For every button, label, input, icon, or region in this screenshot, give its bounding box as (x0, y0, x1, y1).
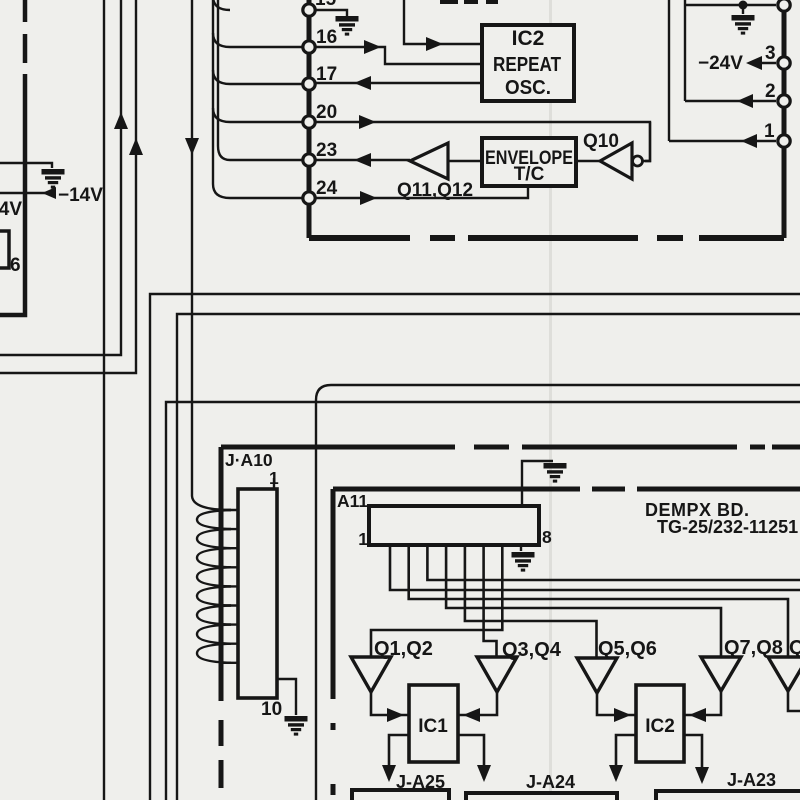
pin 17 wire from IC2 (230, 83, 482, 84)
wire IC1 to J-A25 (389, 735, 409, 779)
transistor pair Q1,Q2 (351, 657, 391, 692)
pin 15 wire and ground (316, 10, 347, 16)
pin 23 wire from Q11 (230, 159, 410, 161)
wire IC2 to J-A23 (684, 735, 702, 781)
wire Q5 out to IC2 (597, 693, 636, 715)
board chain line A11 block left (331, 489, 336, 800)
wire A11 pin1 fan (390, 545, 800, 590)
svg-text:IC2: IC2 (645, 716, 675, 737)
wire long x150 y294 (150, 294, 800, 800)
IC A11 box (369, 506, 539, 545)
IC2 repeat osc box (482, 25, 574, 101)
connector J-A10 box (238, 489, 277, 698)
wire vertical x104 (103, 0, 105, 800)
inverter Q10 (576, 122, 650, 161)
wire IC2 to J-A24 (616, 735, 636, 779)
board chain line bottom of top block (309, 235, 784, 241)
wire riser x669 (668, 0, 670, 141)
svg-text:Q5,Q6: Q5,Q6 (598, 638, 657, 660)
wire A11 pin3 fan (427, 545, 800, 580)
transistor pair Q7,Q8 (701, 657, 741, 691)
svg-text:Q10: Q10 (583, 131, 619, 152)
board chain line J-A10 block left (219, 447, 224, 800)
svg-text:J-A24: J-A24 (526, 772, 575, 792)
buffer Q11,Q12 (448, 160, 482, 162)
envelope T/C box (482, 138, 576, 186)
pin 16 wire to IC2 (230, 47, 482, 64)
ground J-A10 (277, 679, 296, 715)
svg-text:IC2: IC2 (512, 27, 545, 50)
svg-text:T/C: T/C (514, 164, 545, 185)
svg-text:J·A10: J·A10 (225, 450, 273, 470)
svg-text:OSC.: OSC. (505, 77, 551, 99)
svg-text:Q3,Q4: Q3,Q4 (502, 639, 562, 661)
svg-text:2: 2 (765, 81, 776, 102)
board chain line J-A10 block top (221, 445, 800, 450)
wire Q7 out to IC2 (684, 691, 721, 715)
ground A11 pin8 (520, 545, 522, 551)
wire long x177 y314 (177, 314, 800, 800)
connector box 6 (clipped) (0, 231, 9, 268)
pin 1 wire (669, 140, 776, 142)
svg-text:−14V: −14V (58, 185, 103, 206)
svg-text:1: 1 (764, 121, 775, 142)
IC1 box (409, 685, 458, 762)
svg-text:1: 1 (358, 529, 368, 549)
svg-text:−24V: −24V (0, 199, 22, 220)
svg-text:23: 23 (316, 140, 337, 161)
ground symbol left (0, 163, 52, 168)
wire A11 pin6 fan to Q3 (484, 545, 497, 658)
wire A11 pin4 fan to Q7 (446, 545, 721, 657)
svg-text:15: 15 (315, 0, 337, 10)
wire IC2 top input from top edge (404, 0, 482, 44)
svg-text:17: 17 (316, 64, 337, 85)
pin 20 wire to Q10 input (230, 122, 650, 161)
svg-text:10: 10 (261, 699, 282, 720)
connector box J-A24 (466, 793, 617, 800)
IC2 demux box (636, 685, 684, 762)
wire Q1 out to IC1 (371, 692, 409, 715)
svg-text:20: 20 (316, 102, 337, 123)
board outline chain line left (dash-dot border) (0, 0, 25, 315)
svg-text:8: 8 (542, 527, 552, 547)
wire Q3 out to IC1 (458, 692, 497, 715)
pin 24 wire to envelope (230, 186, 528, 198)
pin 2 wire (685, 100, 776, 102)
svg-text:6: 6 (10, 255, 21, 276)
ground A11 top (522, 461, 553, 506)
svg-text:TG-25/232-11251: TG-25/232-11251 (657, 517, 798, 537)
connector box J-A25 (352, 790, 449, 800)
transistor pair Q9,Q10 clipped (768, 657, 800, 691)
harness scallops J-A10 (197, 510, 238, 663)
pin 3 wire -24V (758, 62, 776, 64)
connector box J-A23 (656, 791, 800, 800)
svg-text:Q9: Q9 (789, 637, 800, 659)
connector bus P-A (thick) (307, 0, 312, 238)
svg-text:A11: A11 (337, 491, 368, 511)
wire up-arrow x121 (0, 0, 121, 355)
svg-text:J-A23: J-A23 (727, 770, 776, 790)
svg-text:3: 3 (765, 43, 776, 64)
wire down-arrow x192 harness feed (192, 0, 231, 510)
transistor pair Q3,Q4 (477, 657, 517, 692)
board chain line A11 block top (333, 487, 800, 492)
svg-text:16: 16 (316, 27, 337, 48)
right connector bus (thick) (782, 0, 787, 238)
wire up-arrow x136 (0, 0, 136, 373)
pin circles left bus (303, 4, 315, 204)
svg-text:IC1: IC1 (418, 716, 448, 737)
wire top pin with junction and ground (685, 5, 776, 14)
svg-text:Q11,Q12: Q11,Q12 (397, 180, 473, 201)
wire riser x685 (684, 0, 686, 101)
wire A11 pin7 fan to Q1 (371, 545, 502, 657)
wire T5 out (788, 691, 800, 711)
svg-text:REPEAT: REPEAT (493, 54, 561, 76)
svg-text:−24V: −24V (698, 53, 743, 74)
svg-text:24: 24 (316, 178, 338, 199)
wire A11 pin5 fan to Q5 (465, 545, 597, 658)
wire IC1 to J-A24 (458, 735, 484, 779)
svg-text:Q1,Q2: Q1,Q2 (374, 638, 433, 660)
top edge marks (440, 0, 458, 4)
wire -14V feed (0, 192, 55, 194)
transistor pair Q5,Q6 (577, 658, 617, 693)
wire long arc x316 y385 (316, 385, 800, 800)
pin circles right bus (778, 0, 790, 147)
harness bundle top-left (213, 0, 230, 198)
wire A11 pin2 fan to T5 (409, 545, 788, 656)
wire long x166 y402 (166, 402, 800, 800)
